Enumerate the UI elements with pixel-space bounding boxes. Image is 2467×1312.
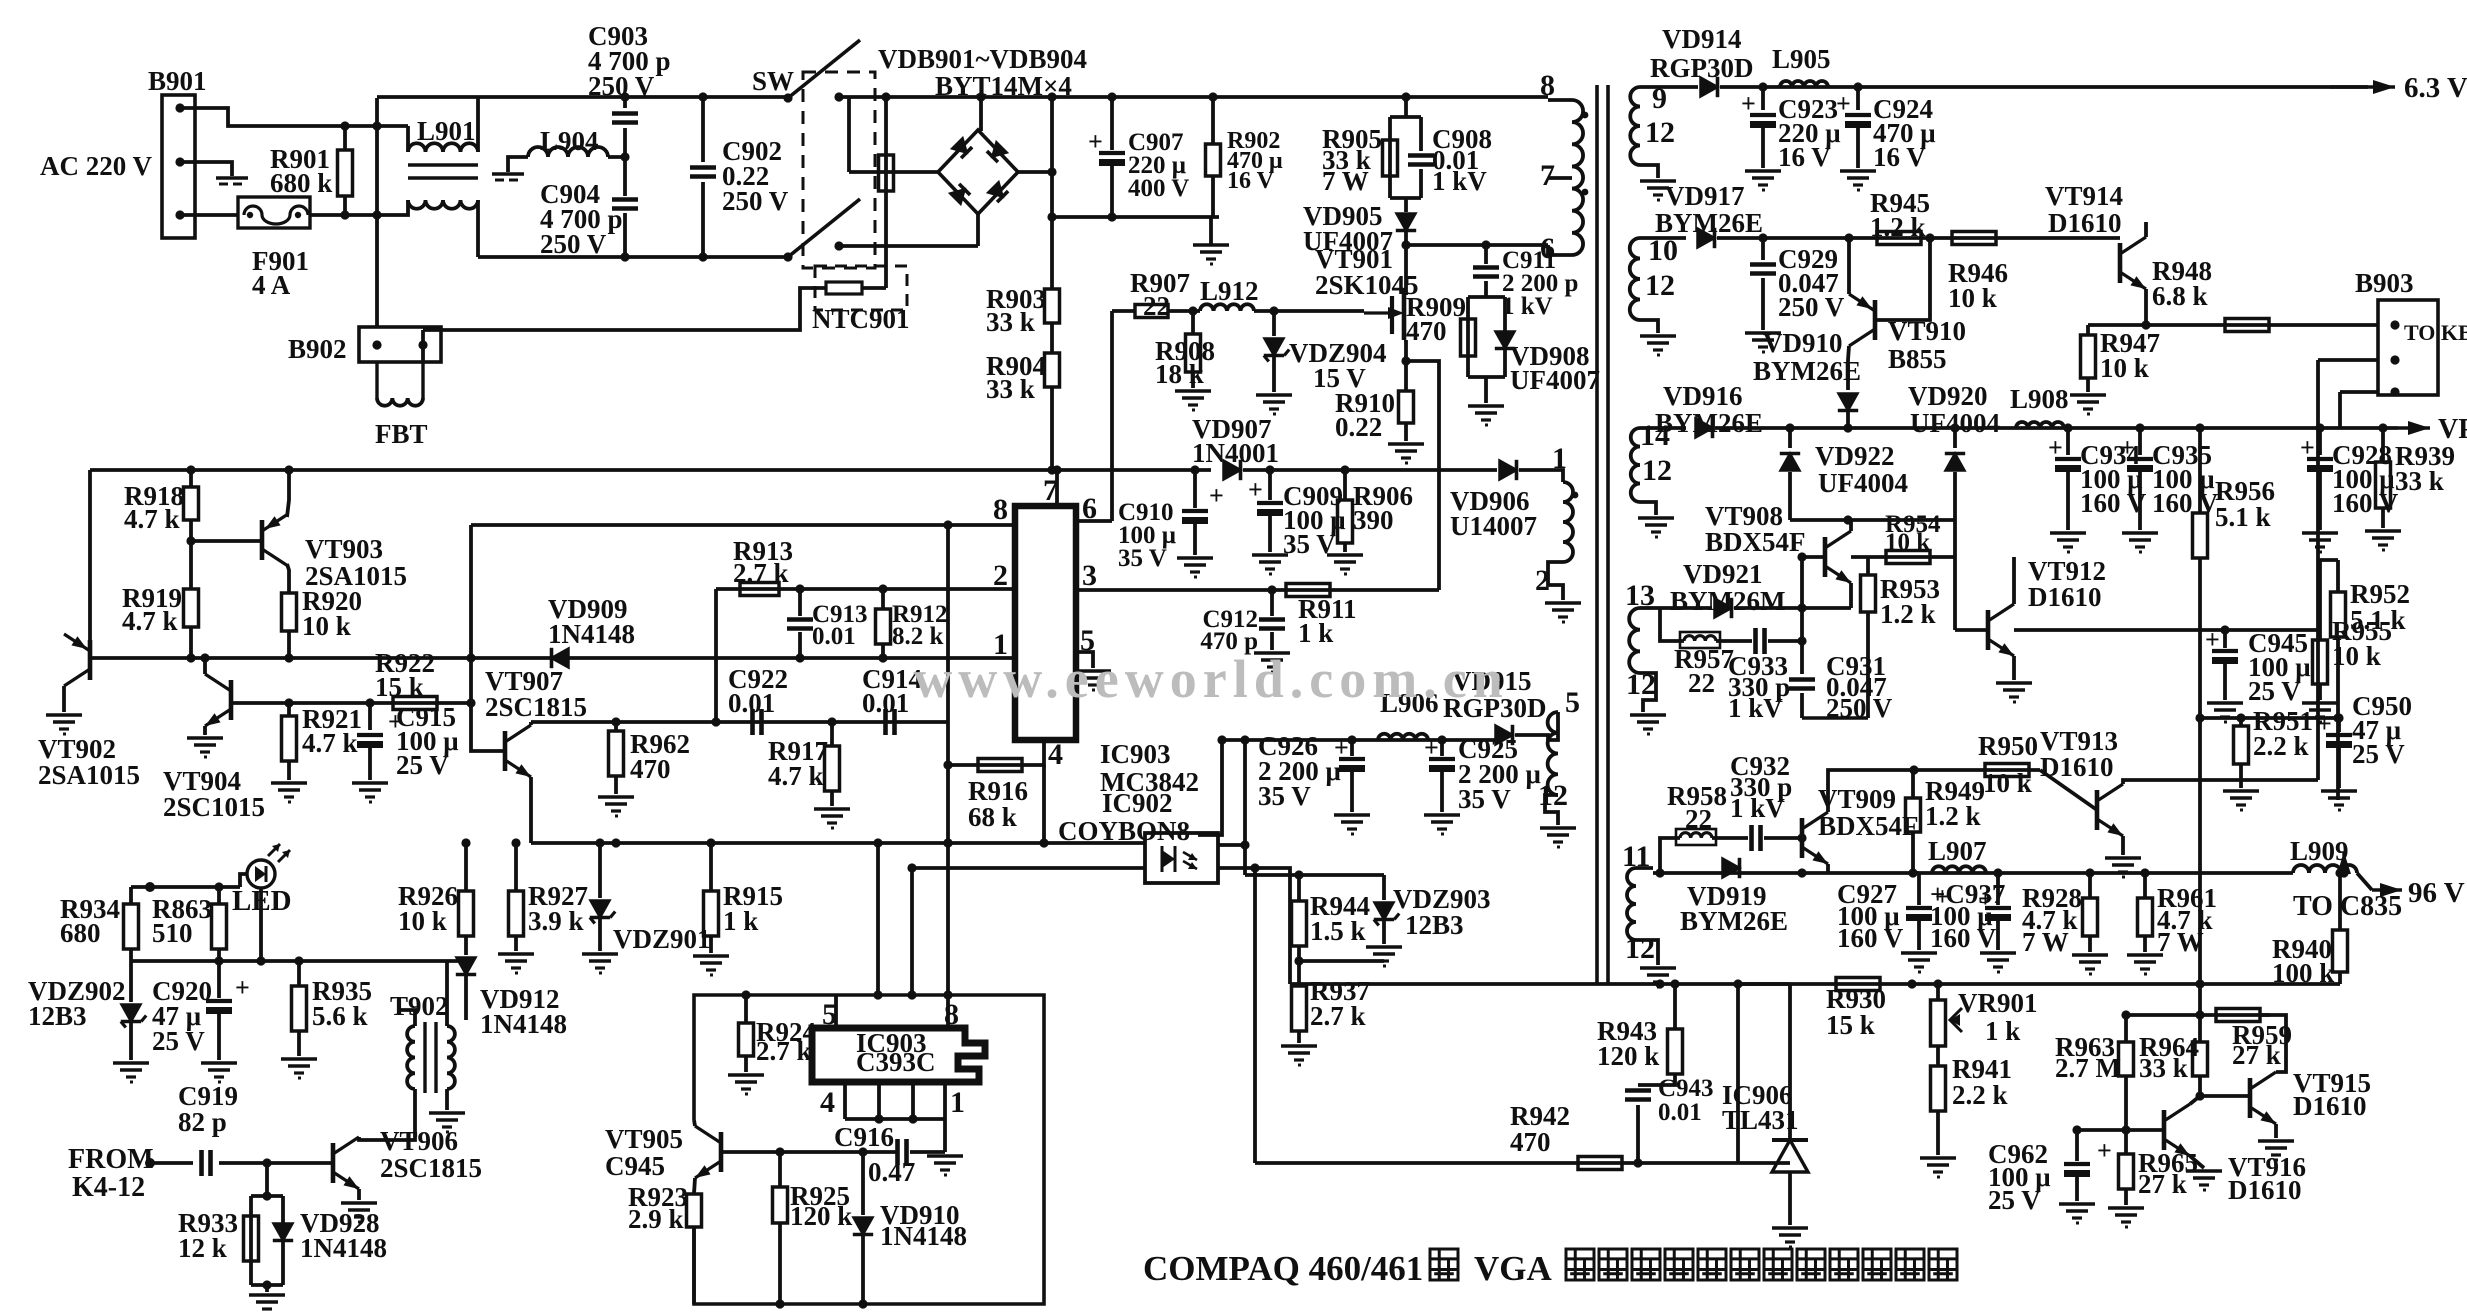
wire: [1764, 836, 1802, 840]
wire: [310, 213, 377, 217]
svg-text:68 k: 68 k: [968, 802, 1017, 832]
wire: [189, 520, 193, 589]
thermistor NTC901: [815, 266, 907, 310]
svg-text:5.1 k: 5.1 k: [2350, 605, 2406, 635]
inductor L912: [1200, 304, 1254, 311]
transistor VT909: [1800, 818, 1805, 858]
svg-text:1 k: 1 k: [1985, 1016, 2020, 1046]
svg-text:FROM: FROM: [68, 1144, 154, 1175]
svg-text:120 k: 120 k: [790, 1201, 852, 1231]
ground C962: [2059, 1202, 2095, 1206]
wire pin6: [1076, 519, 1112, 523]
svg-text:VD917: VD917: [1665, 181, 1745, 211]
resistor R925: [773, 1187, 788, 1223]
resistor R913: [740, 583, 779, 596]
wire VT902 emitter: [62, 686, 66, 712]
wire: [1548, 98, 1572, 102]
svg-text:4 A: 4 A: [252, 270, 291, 300]
svg-text:IC902: IC902: [1102, 788, 1173, 818]
resistor R916: [978, 759, 1022, 772]
resistor R928: [2088, 873, 2092, 898]
svg-text:7: 7: [1540, 159, 1555, 192]
capacitor C928: [2307, 457, 2333, 461]
capacitor C913: [798, 589, 802, 616]
svg-text:5.6 k: 5.6 k: [312, 1001, 368, 1031]
capacitor C929: [1761, 238, 1765, 260]
resistor R920: [282, 593, 297, 631]
svg-text:1: 1: [950, 1086, 965, 1119]
capacitor C931: [1800, 641, 1804, 674]
resistor R901: [338, 150, 353, 196]
loop R933 VD928: [251, 1194, 283, 1198]
capacitor C919: [199, 1150, 204, 1176]
capacitor C926: [1350, 740, 1354, 756]
wire osc columns: [876, 843, 880, 995]
svg-text:L907: L907: [1928, 836, 1987, 866]
wire pin5 stub: [834, 995, 838, 1028]
capacitor C924: [1856, 87, 1860, 110]
inductor L901 top: [408, 143, 478, 152]
capacitor C913: [787, 617, 813, 622]
svg-text:15 V: 15 V: [1313, 363, 1366, 393]
wire 16V row: [1717, 236, 2120, 240]
svg-text:L904: L904: [540, 126, 599, 156]
wire opto rail: [531, 841, 1145, 845]
resistor R947 branch: [2086, 325, 2090, 335]
ground R917: [814, 807, 850, 811]
capacitor C931: [1789, 677, 1815, 682]
wire: [1243, 740, 1247, 875]
svg-text:25 V: 25 V: [152, 1026, 205, 1056]
svg-text:3: 3: [1082, 559, 1097, 592]
svg-text:5: 5: [1565, 686, 1580, 719]
wire bridge ac1: [847, 97, 851, 172]
resistor R962: [614, 722, 618, 731]
svg-text:+: +: [2317, 709, 2332, 738]
svg-text:AC 220 V: AC 220 V: [40, 151, 153, 181]
ground C926: [1334, 813, 1370, 817]
ground C950: [2321, 789, 2357, 793]
diode VD907 rail: [1049, 468, 1211, 472]
arrow TO C835: [2339, 868, 2348, 877]
svg-text:COYBON8: COYBON8: [1058, 816, 1190, 846]
svg-text:160 V: 160 V: [2332, 488, 2399, 518]
resistor R940: [2338, 873, 2342, 930]
diode VD910: [853, 1218, 872, 1235]
wire: [180, 162, 232, 176]
ground C929: [1745, 331, 1781, 335]
svg-text:2.7 k: 2.7 k: [756, 1036, 812, 1066]
capacitor C915: [357, 733, 383, 737]
svg-text:T902: T902: [390, 991, 449, 1021]
wire osc loop: [694, 995, 1044, 1304]
resistor R906: [1338, 500, 1353, 543]
capacitor C923: [1761, 87, 1765, 110]
svg-text:0.01: 0.01: [862, 688, 909, 718]
svg-text:VT914: VT914: [2045, 181, 2123, 211]
wire VT914 collector stub: [2144, 222, 2148, 237]
svg-text:1 kV: 1 kV: [1502, 293, 1553, 320]
wire: [1299, 959, 1384, 963]
capacitor C925: [1440, 740, 1444, 756]
svg-text:33 k: 33 k: [986, 307, 1035, 337]
wire: [862, 286, 886, 290]
ground C915: [352, 781, 388, 785]
wire: [948, 740, 1044, 765]
zener VDZ902: [121, 1005, 140, 1022]
resistor R924: [744, 995, 748, 1023]
svg-text:10: 10: [1648, 234, 1678, 267]
wire: [2357, 873, 2372, 890]
capacitor C933: [1753, 628, 1758, 654]
wire: [2336, 637, 2340, 800]
inductor T902 right: [447, 1026, 455, 1089]
wire VT910 emitter: [1847, 238, 1851, 294]
wire: [1515, 735, 1548, 740]
wire: [1640, 426, 1686, 430]
resistor R935: [292, 986, 307, 1031]
svg-text:27 k: 27 k: [2232, 1040, 2281, 1070]
wire VT906 collector: [359, 1137, 362, 1140]
capacitor C914: [883, 709, 888, 735]
wire: [287, 564, 289, 593]
wire: [943, 1119, 947, 1152]
switch SW: [803, 72, 875, 268]
snubber box R909 VD908: [1468, 295, 1505, 299]
svg-text:FBT: FBT: [375, 419, 428, 449]
svg-text:2SC1015: 2SC1015: [163, 792, 265, 822]
wire feedback rail: [1290, 982, 2340, 986]
ground C910: [1177, 556, 1213, 560]
svg-text:12 k: 12 k: [178, 1233, 227, 1263]
wire base row: [2077, 1128, 2164, 1132]
svg-text:22: 22: [1688, 668, 1715, 698]
ground C928: [2302, 531, 2338, 535]
resistor R915: [704, 891, 719, 936]
svg-text:C393C: C393C: [856, 1047, 936, 1077]
transistor VT906: [331, 1143, 336, 1183]
svg-text:VGA: VGA: [1474, 1249, 1553, 1288]
wire 35V rail: [1222, 738, 1498, 742]
ground C927: [1901, 951, 1937, 955]
svg-text:2.9 k: 2.9 k: [628, 1204, 684, 1234]
inductor L905: [1780, 81, 1828, 87]
svg-text:2: 2: [993, 559, 1008, 592]
resistor R934: [124, 904, 139, 949]
wire: [1052, 215, 1219, 219]
resistor R934: [129, 887, 133, 904]
wire: [445, 961, 449, 1026]
ground T902: [429, 1111, 465, 1115]
wire: [1548, 176, 1572, 180]
transistor VT908: [1823, 537, 1828, 577]
capacitor C903: [612, 111, 638, 116]
ground w11: [1640, 966, 1676, 970]
capacitor C962: [2075, 1130, 2079, 1161]
ground C923: [1745, 169, 1781, 173]
resistor R901 wire: [343, 126, 347, 150]
svg-text:22: 22: [1685, 804, 1712, 834]
resistor R917: [830, 722, 834, 746]
wire: [362, 1089, 415, 1140]
diode VD910b: [861, 1152, 865, 1215]
resistor R930: [1836, 978, 1880, 991]
svg-text:4.7 k: 4.7 k: [124, 504, 180, 534]
wire: [180, 108, 408, 126]
ground VT916: [2186, 1169, 2222, 1173]
svg-text:22: 22: [1143, 291, 1170, 321]
svg-text:D1610: D1610: [2028, 582, 2102, 612]
svg-text:SW: SW: [752, 66, 794, 96]
transformer FBT: [375, 362, 378, 398]
wire: [1802, 716, 1868, 719]
svg-text:7 W: 7 W: [2157, 927, 2204, 957]
svg-text:1 kV: 1 kV: [1432, 166, 1487, 196]
resistor R902: [1206, 144, 1221, 176]
ground R962: [598, 795, 634, 799]
wire bridge right: [1018, 170, 1052, 174]
resistor R955: [2313, 640, 2328, 684]
resistor R945: [1877, 232, 1921, 245]
inductor T901 primary: [1572, 100, 1583, 255]
fuse F901: [238, 197, 310, 228]
wire: [406, 126, 410, 152]
capacitor C943: [1625, 1088, 1651, 1093]
diode VD910: [1838, 394, 1857, 411]
ground R933: [249, 1293, 285, 1297]
svg-text:5.1 k: 5.1 k: [2215, 502, 2271, 532]
svg-text:6.8 k: 6.8 k: [2152, 281, 2208, 311]
wire: [259, 888, 263, 961]
svg-text:680 k: 680 k: [270, 168, 332, 198]
svg-text:2.2 k: 2.2 k: [1952, 1080, 2008, 1110]
wire VT908 collector: [1849, 520, 1853, 531]
svg-text:2.7 k: 2.7 k: [733, 558, 789, 588]
ground R947: [2070, 393, 2106, 397]
inductor T901 w11: [1627, 868, 1636, 940]
capacitor C920: [206, 999, 232, 1003]
chassis ground L904 stub: [492, 172, 524, 175]
diode VD922: [1780, 454, 1799, 471]
wire osc pins bottom: [843, 1082, 847, 1119]
transistor VT905: [719, 1132, 724, 1172]
svg-text:+: +: [1248, 475, 1263, 504]
svg-text:510: 510: [152, 918, 193, 948]
wire: [1768, 639, 1802, 643]
IC906 TL431: [1772, 1138, 1808, 1142]
svg-text:1.2 k: 1.2 k: [1870, 212, 1926, 242]
diode VD907: [1224, 460, 1241, 479]
resistor R905: [1383, 140, 1398, 176]
svg-text:VDZ901: VDZ901: [613, 924, 711, 954]
resistor R908: [1186, 334, 1201, 372]
svg-text:VDB901~VDB904: VDB901~VDB904: [878, 44, 1087, 74]
ground R935: [281, 1057, 317, 1061]
svg-text:TO C835: TO C835: [2293, 891, 2402, 922]
resistor R944: [1292, 901, 1307, 946]
svg-text:2: 2: [1535, 564, 1550, 597]
diode VD912: [456, 958, 475, 975]
wire: [1788, 984, 1792, 1110]
transistor VT904: [229, 680, 234, 720]
svg-text:35 V: 35 V: [1458, 784, 1511, 814]
capacitor C934: [2066, 428, 2070, 455]
ground C937: [1980, 951, 2016, 955]
svg-text:160 V: 160 V: [1837, 923, 1904, 953]
wire VT912 base: [1955, 628, 1988, 632]
resistor R961: [2143, 873, 2147, 898]
wire 96V filter rail: [1653, 871, 2293, 875]
capacitor C909 branch: [1268, 470, 1272, 500]
svg-text:1.5 k: 1.5 k: [1310, 916, 1366, 946]
resistor R918: [189, 470, 193, 487]
diode VD906: [1500, 460, 1517, 479]
svg-text:10 k: 10 k: [1948, 283, 1997, 313]
ground R951: [2223, 789, 2259, 793]
resistor R941: [1931, 1066, 1946, 1111]
svg-text:VT906: VT906: [380, 1126, 458, 1156]
resistor R939 branch: [2381, 428, 2385, 462]
wire VT912 collector: [2012, 557, 2016, 604]
connector B903: [2378, 300, 2438, 395]
svg-text:BDX54F: BDX54F: [1818, 811, 1919, 841]
svg-text:96 V: 96 V: [2408, 877, 2465, 909]
ground VDZ904: [1256, 393, 1292, 397]
svg-text:120 k: 120 k: [1597, 1041, 1659, 1071]
resistor R952: [2336, 560, 2340, 592]
svg-text:VD914: VD914: [1662, 24, 1742, 54]
zener VDZ903: [1382, 875, 1386, 900]
svg-text:250 V: 250 V: [1778, 292, 1845, 322]
wire Vcc rail: [90, 468, 1052, 472]
diode VD922: [1788, 428, 1792, 448]
zener VDZ904: [1264, 339, 1283, 356]
wire: [1253, 868, 1257, 1163]
transistor VT913: [2095, 790, 2100, 830]
ground R939: [2365, 529, 2401, 533]
inductor T902 left: [407, 1026, 415, 1089]
svg-text:1N4148: 1N4148: [300, 1233, 387, 1263]
svg-text:1: 1: [1552, 442, 1567, 475]
wire VT913 emitter: [2121, 836, 2125, 855]
wire: [1640, 502, 1656, 515]
wire: [2318, 358, 2378, 362]
zener VDZ903: [1374, 903, 1393, 920]
svg-text:BYM26E: BYM26E: [1680, 906, 1788, 936]
IC U902 COYBON8: [1145, 833, 1218, 883]
ground R928: [2072, 953, 2108, 957]
wire LED bus: [131, 959, 466, 963]
capacitor C915: [368, 703, 372, 730]
ground R961: [2127, 953, 2163, 957]
connector B901: [162, 95, 195, 238]
svg-text:16 V: 16 V: [1873, 142, 1926, 172]
wire: [1638, 1074, 1675, 1085]
svg-text:400 V: 400 V: [1128, 175, 1189, 202]
resistor R948: [2225, 319, 2269, 332]
svg-text:L909: L909: [2290, 836, 2349, 866]
svg-text:2.7 k: 2.7 k: [1310, 1001, 1366, 1031]
potentiometer VR901: [1936, 984, 1940, 1000]
svg-text:VD920: VD920: [1908, 381, 1988, 411]
svg-text:BYM26E: BYM26E: [1753, 356, 1861, 386]
svg-text:4.7 k: 4.7 k: [302, 728, 358, 758]
wire: [2338, 392, 2342, 428]
wire VT906 emitter: [357, 1189, 361, 1200]
svg-text:IC903: IC903: [1100, 739, 1171, 769]
resistor R902 branch: [1211, 98, 1215, 144]
diode VD928: [273, 1224, 292, 1241]
wire bridge ac2: [976, 214, 980, 246]
svg-text:6: 6: [1540, 232, 1555, 265]
wire: [910, 1150, 945, 1154]
svg-text:160 V: 160 V: [2080, 488, 2147, 518]
svg-text:NTC901: NTC901: [812, 304, 910, 334]
svg-text:+: +: [2097, 1136, 2112, 1165]
ground C920: [201, 1061, 237, 1065]
wire: [2340, 390, 2378, 394]
resistor R951: [2239, 718, 2243, 726]
inductor T901 w9: [1630, 87, 1640, 165]
svg-text:12B3: 12B3: [1405, 910, 1464, 940]
wire: [1738, 982, 1790, 986]
svg-text:L901: L901: [417, 116, 476, 146]
ground C934: [2050, 531, 2086, 535]
wire: [240, 874, 247, 887]
svg-text:13: 13: [1625, 579, 1655, 612]
wire C922 row: [531, 720, 948, 724]
svg-text:25 V: 25 V: [396, 750, 449, 780]
wire: [1110, 311, 1114, 521]
svg-text:B903: B903: [2355, 268, 2414, 298]
arrow VP: [2398, 426, 2430, 429]
wire ramp column: [946, 525, 950, 995]
wire: [1406, 361, 1439, 590]
wire: [1640, 236, 1686, 240]
svg-text:2SA1015: 2SA1015: [38, 760, 140, 790]
ground R937: [1281, 1044, 1317, 1048]
wire VP rail: [1715, 426, 2398, 430]
wire: [1548, 712, 1558, 740]
wire: [1484, 377, 1488, 403]
resistor R958: [1680, 833, 1712, 838]
resistor R926: [464, 843, 468, 891]
svg-text:VT903: VT903: [305, 534, 383, 564]
svg-text:+: +: [1209, 481, 1224, 510]
ground w9: [1640, 179, 1676, 183]
diode VD919: [1723, 858, 1740, 877]
svg-text:7 W: 7 W: [1322, 166, 1369, 196]
inductor T901 w10: [1630, 238, 1640, 320]
ground R941: [1920, 1156, 1956, 1160]
resistor R949: [1911, 770, 1915, 798]
resistor R944: [1297, 875, 1301, 901]
svg-text:VD922: VD922: [1815, 441, 1895, 471]
wire VT904 emitter: [203, 726, 207, 735]
resistor R922: [393, 697, 437, 710]
capacitor C920: [217, 961, 221, 998]
svg-text:1N4148: 1N4148: [880, 1221, 967, 1251]
resistor R964: [2193, 1042, 2208, 1076]
rectifier bridge VDB901~VDB904: [938, 130, 1018, 214]
capacitor C924: [1845, 113, 1871, 117]
capacitor C911: [1473, 265, 1499, 270]
svg-text:1N4148: 1N4148: [548, 619, 635, 649]
svg-text:BYM26M: BYM26M: [1670, 586, 1785, 616]
capacitor C935: [2127, 457, 2153, 461]
wire: [1076, 652, 1093, 668]
svg-text:UF4007: UF4007: [1510, 365, 1600, 395]
